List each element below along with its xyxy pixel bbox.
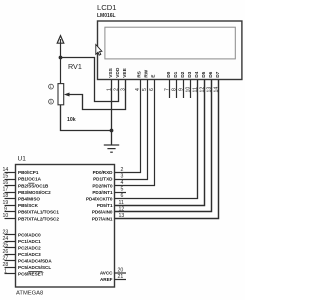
svg-text:PC4/ADC4/SDA: PC4/ADC4/SDA	[18, 259, 52, 264]
svg-text:PB2/SS/OC1B: PB2/SS/OC1B	[18, 183, 49, 188]
svg-text:PB0/ICP1: PB0/ICP1	[18, 170, 39, 175]
svg-text:10k: 10k	[67, 117, 76, 123]
U1 pin 25 PC2/ADC2	[5, 247, 16, 249]
svg-text:PD7/AIN1: PD7/AIN1	[92, 216, 113, 221]
U1 pin 28 PC5/ADC5/SCL	[5, 267, 16, 269]
U1 pin 20 AVCC	[115, 272, 127, 274]
wire VCC to pot top	[60, 43, 62, 83]
svg-text:1: 1	[106, 88, 112, 91]
svg-text:18: 18	[3, 193, 9, 199]
wire LCD VSS pin1 down to ground node	[111, 80, 113, 145]
U1 pin 15 PB1/OC1A	[5, 179, 16, 181]
svg-text:PC5/ADC5/SCL: PC5/ADC5/SCL	[18, 265, 51, 270]
svg-text:28: 28	[3, 262, 9, 268]
wire LCD D3 stub	[190, 80, 192, 99]
wire LCD D1 stub	[176, 80, 178, 99]
svg-text:D5: D5	[201, 71, 207, 77]
svg-text:PC6/RESET: PC6/RESET	[18, 272, 44, 277]
potentiometer RV1 body	[58, 84, 64, 105]
svg-text:24: 24	[3, 236, 9, 242]
U1 body	[16, 165, 115, 288]
svg-text:9: 9	[4, 206, 7, 212]
svg-text:D6: D6	[208, 71, 214, 77]
svg-text:VSS: VSS	[108, 67, 114, 77]
svg-text:D2: D2	[180, 71, 186, 77]
svg-text:26: 26	[3, 249, 9, 255]
RV1 terminal circle 3	[49, 99, 54, 104]
U1 pin 14 PB0/ICP1	[5, 172, 16, 174]
svg-text:10: 10	[3, 213, 9, 219]
svg-text:VEE: VEE	[122, 67, 128, 77]
U1 pin 23 PC0/ADC0	[5, 234, 16, 236]
svg-text:1: 1	[4, 268, 7, 274]
svg-text:27: 27	[3, 255, 9, 261]
svg-text:3: 3	[121, 173, 124, 179]
svg-text:PD6/AIN0: PD6/AIN0	[92, 210, 113, 215]
svg-text:13: 13	[119, 213, 125, 219]
svg-text:14: 14	[3, 167, 9, 173]
svg-text:4: 4	[121, 180, 124, 186]
svg-text:PB1/OC1A: PB1/OC1A	[18, 177, 42, 182]
svg-text:RV1: RV1	[68, 62, 82, 71]
svg-text:12: 12	[119, 206, 125, 212]
U1 pin 1 PC6/RESET	[5, 273, 16, 275]
wire LCD RS to U1 PD0 pin 2	[115, 80, 141, 173]
wire RV1 wiper to LCD VEE pin 3	[69, 80, 126, 110]
svg-text:17: 17	[3, 187, 9, 193]
U1 pin 17 PB3/MOSI/OC2	[5, 192, 16, 194]
svg-text:PD5/T1: PD5/T1	[97, 203, 113, 208]
wire LCD D7 to U1 PD7 pin 13	[115, 80, 219, 219]
svg-text:AVCC: AVCC	[100, 271, 113, 276]
wire LCD D4 to U1 PD4 pin 6	[115, 80, 198, 199]
node junction VCC/VDD	[59, 56, 63, 60]
svg-text:PB4/MISO: PB4/MISO	[18, 197, 40, 202]
RV1 terminal circle 1	[49, 84, 54, 89]
svg-text:D0: D0	[166, 71, 172, 77]
wire VCC node to LCD VDD pin 2	[61, 58, 119, 102]
svg-text:PC1/ADC1: PC1/ADC1	[18, 239, 41, 244]
svg-text:5: 5	[121, 187, 124, 193]
svg-text:PC3/ADC3: PC3/ADC3	[18, 252, 41, 257]
U1 pin 9 PB6/XTAL1/TOSC1	[5, 211, 16, 213]
U1 pin 18 PB4/MISO	[5, 198, 16, 200]
U1 pin 5 PD3/INT1	[115, 192, 127, 194]
svg-text:D3: D3	[187, 71, 193, 77]
svg-text:D4: D4	[194, 71, 200, 77]
svg-text:ATMEGA8: ATMEGA8	[16, 291, 43, 297]
svg-text:6: 6	[121, 193, 124, 199]
svg-text:RW: RW	[144, 69, 150, 77]
svg-text:PB7/XTAL2/TOSC2: PB7/XTAL2/TOSC2	[18, 216, 59, 221]
svg-text:23: 23	[3, 229, 9, 235]
wire RV1 bottom to ground node	[61, 105, 112, 131]
svg-text:VDD: VDD	[115, 67, 121, 78]
power VCC arrow	[57, 36, 64, 44]
U1 pin 27 PC4/ADC4/SDA	[5, 260, 16, 262]
U1 pin 24 PC1/ADC1	[5, 241, 16, 243]
svg-text:PB5/SCK: PB5/SCK	[18, 203, 39, 208]
svg-text:PB3/MOSI/OC2: PB3/MOSI/OC2	[18, 190, 51, 195]
svg-text:PB6/XTAL1/TOSC1: PB6/XTAL1/TOSC1	[18, 210, 59, 215]
svg-text:11: 11	[119, 200, 124, 206]
svg-text:15: 15	[3, 173, 9, 179]
wire LCD D0 stub	[169, 80, 171, 99]
svg-text:3: 3	[120, 88, 126, 91]
U1 pin 19 PB5/SCK	[5, 205, 16, 207]
svg-text:2: 2	[121, 167, 124, 173]
svg-text:AREF: AREF	[100, 277, 113, 282]
svg-text:D1: D1	[173, 71, 179, 77]
wire LCD D6 to U1 PD6 pin 12	[115, 80, 212, 212]
svg-text:D7: D7	[215, 71, 221, 77]
svg-text:PD2/INT0: PD2/INT0	[92, 183, 113, 188]
svg-text:U1: U1	[18, 156, 27, 163]
svg-text:16: 16	[3, 180, 9, 186]
svg-text:PC2/ADC2: PC2/ADC2	[18, 246, 41, 251]
U1 pin 16 PB2/SS/OC1B	[5, 185, 16, 187]
ground symbol	[104, 145, 119, 152]
svg-text:PD0/RXD: PD0/RXD	[93, 170, 114, 175]
svg-text:25: 25	[3, 242, 9, 248]
LCD1 body	[98, 21, 242, 80]
wire LCD D5 to U1 PD5 pin 11	[115, 80, 205, 206]
wire LCD D2 stub	[183, 80, 185, 99]
svg-text:PD4/XCK/T0: PD4/XCK/T0	[86, 197, 113, 202]
node junction ground	[110, 129, 114, 133]
svg-text:PC0/ADC0: PC0/ADC0	[18, 233, 41, 238]
svg-text:2: 2	[113, 88, 119, 91]
svg-text:21: 21	[118, 274, 124, 280]
svg-text:PD3/INT1: PD3/INT1	[92, 190, 113, 195]
svg-text:LCD1: LCD1	[97, 3, 116, 12]
svg-text:20: 20	[118, 267, 124, 273]
RV1 wiper arrow	[64, 93, 70, 97]
U1 pin 21 AREF	[115, 279, 127, 281]
wire LCD E to U1 PD2 pin 4	[115, 80, 155, 186]
svg-text:19: 19	[3, 200, 9, 206]
svg-text:3: 3	[50, 100, 52, 104]
wire LCD RW to U1 PD1 pin 3	[115, 80, 148, 180]
U1 pin 26 PC3/ADC3	[5, 254, 16, 256]
LCD1 screen	[105, 27, 235, 59]
mouse cursor	[96, 45, 102, 56]
svg-text:LM016L: LM016L	[97, 13, 116, 19]
U1 pin 10 PB7/XTAL2/TOSC2	[5, 218, 16, 220]
svg-text:PD1/TXD: PD1/TXD	[93, 177, 113, 182]
svg-text:1: 1	[50, 85, 52, 89]
svg-text:RS: RS	[137, 70, 143, 77]
